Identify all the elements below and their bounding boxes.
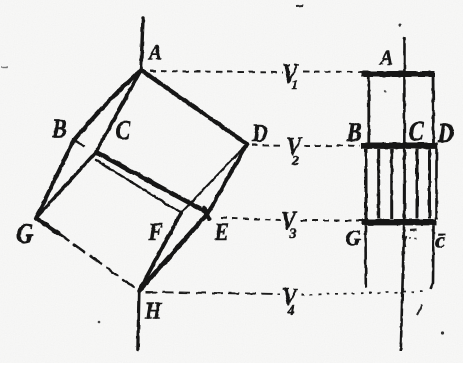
stray slash bottom right bbox=[417, 305, 422, 315]
svg-text:2: 2 bbox=[291, 154, 299, 169]
dashed level line V1 right part bbox=[303, 71, 366, 74]
right figure center axis bbox=[401, 37, 405, 351]
stray dash far left V1 bbox=[1, 66, 8, 68]
edge A-C bbox=[96, 70, 141, 152]
vertex E ink blob bbox=[204, 208, 209, 219]
edge E-H bbox=[139, 213, 208, 291]
svg-text:3: 3 bbox=[289, 227, 297, 242]
edge G-H elbow bbox=[36, 218, 58, 233]
right figure rect1 right edge bbox=[432, 71, 435, 143]
right figure B level bar bbox=[361, 142, 438, 148]
bottom rect right edge bbox=[431, 226, 434, 290]
edge A-B bbox=[74, 70, 141, 140]
svg-text:F: F bbox=[148, 218, 163, 246]
hatch line 1 / left edge bbox=[365, 149, 368, 219]
svg-text:1: 1 bbox=[291, 78, 298, 93]
hatch line 2 bbox=[377, 149, 380, 219]
svg-text:4: 4 bbox=[287, 304, 295, 319]
stray dash top bbox=[296, 5, 303, 8]
dashed level line V3 right part bbox=[301, 220, 362, 222]
dashed level line V1 left part bbox=[150, 71, 283, 73]
svg-text:E: E bbox=[214, 218, 229, 246]
svg-text:G: G bbox=[346, 225, 361, 251]
stray dot top right bbox=[399, 24, 402, 27]
svg-text:D: D bbox=[437, 119, 454, 149]
edge F-H bbox=[139, 213, 181, 291]
svg-text:B: B bbox=[51, 114, 67, 144]
hatch line 4 center bbox=[403, 149, 406, 219]
stray dot in rect1 bbox=[384, 90, 386, 92]
stray dot bottom far right bbox=[441, 331, 444, 334]
dashed level line V3 left part bbox=[221, 218, 281, 221]
right figure rect1 left edge bbox=[367, 77, 370, 143]
dashed level line V4 left part bbox=[146, 292, 280, 294]
edge C-E bbox=[96, 152, 208, 213]
hatch line 6 bbox=[428, 149, 431, 219]
vertical axis below H bbox=[138, 291, 139, 350]
edge B-F main bbox=[96, 160, 181, 213]
right figure top bar A level bbox=[361, 71, 435, 77]
vertical axis above A bbox=[141, 18, 143, 70]
right figure G level bar bbox=[362, 219, 437, 225]
svg-text:C: C bbox=[116, 116, 131, 146]
dashed level line V2 right part bbox=[304, 145, 360, 147]
smudge below G bar bbox=[410, 228, 417, 231]
svg-text:c̄: c̄ bbox=[436, 228, 446, 253]
svg-text:C: C bbox=[409, 117, 424, 147]
svg-text:B: B bbox=[346, 118, 362, 148]
edge B-G bbox=[36, 140, 74, 218]
stray dot bottom left bbox=[98, 321, 101, 324]
edge A-D bbox=[141, 70, 247, 144]
svg-text:A: A bbox=[147, 40, 162, 65]
hatch line 5 bbox=[416, 149, 419, 219]
svg-text:G: G bbox=[17, 218, 34, 250]
edge B-F stub bbox=[73, 140, 84, 147]
edge G-H dashed remainder bbox=[58, 233, 139, 291]
svg-text:D: D bbox=[251, 120, 268, 148]
dashed level line V4 right part bbox=[301, 292, 425, 295]
bottom rect left edge bbox=[364, 226, 367, 289]
edge D-F bbox=[181, 144, 247, 213]
hatch right edge bbox=[435, 143, 438, 219]
small f mark below G bar bbox=[405, 237, 407, 248]
hatch line 3 bbox=[390, 149, 393, 219]
dashed level line V2 left part bbox=[252, 144, 285, 147]
edge D-E bbox=[208, 144, 247, 213]
small dots right of f mark bbox=[409, 238, 416, 239]
svg-text:H: H bbox=[144, 297, 162, 323]
svg-text:A: A bbox=[378, 47, 393, 70]
edge C-G bbox=[36, 152, 96, 218]
